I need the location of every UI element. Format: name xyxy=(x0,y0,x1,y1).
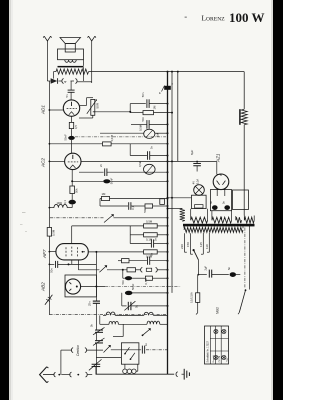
table marks xyxy=(214,329,226,359)
mech dash-dot mains xyxy=(244,228,246,289)
resistor 50k AC2 cathode xyxy=(70,186,79,194)
wire AF7 anode corner xyxy=(72,226,144,244)
svg-text:AF7: AF7 xyxy=(42,249,47,259)
switch arrow osc xyxy=(104,345,111,352)
svg-text:5n: 5n xyxy=(150,252,154,256)
resistor 0,5M row 226 xyxy=(144,219,169,228)
wire lamp row xyxy=(167,190,194,199)
wire AD1 plate right xyxy=(80,98,93,106)
resistor 1M row2 xyxy=(130,105,173,115)
wire choke down xyxy=(243,125,245,216)
label AB2 xyxy=(41,282,46,292)
svg-text:50n: 50n xyxy=(121,279,125,284)
wire terminal-left stem xyxy=(46,41,48,81)
wire AF7 bottom drops xyxy=(72,260,79,270)
svg-text:0,5M: 0,5M xyxy=(138,160,142,167)
wire row 218 to bus xyxy=(114,217,169,219)
wire mains drop left xyxy=(197,275,199,293)
wire AF7 left xyxy=(49,251,56,253)
antenna lead-in xyxy=(40,367,49,383)
row 269 jack xyxy=(78,267,168,272)
capacitor 50nF row 124 xyxy=(141,116,169,128)
wire ground bus bottom xyxy=(96,373,174,375)
potentiometer oval row 133 xyxy=(100,124,169,138)
label lamp xyxy=(191,179,199,185)
resistor 0,5M left rail xyxy=(47,228,55,237)
wire antenna row xyxy=(43,374,54,376)
svg-text:50nF: 50nF xyxy=(110,178,114,185)
resistor 0,1M row 144 xyxy=(103,134,169,145)
label Netz xyxy=(216,307,220,314)
mains switch xyxy=(238,289,246,314)
wire HT row 162 xyxy=(178,161,217,163)
coil loops AC2 xyxy=(54,202,67,208)
trimmer cap lower xyxy=(93,338,105,345)
svg-text:0,5M: 0,5M xyxy=(144,278,148,285)
tube AC2 xyxy=(65,153,81,169)
svg-text:125: 125 xyxy=(199,242,203,247)
svg-text:2µF: 2µF xyxy=(204,265,208,270)
svg-text:0,1: 0,1 xyxy=(131,205,135,209)
transformer secondary winding 4 xyxy=(244,216,254,224)
row 278 components xyxy=(121,276,169,284)
transformer primary winding xyxy=(184,226,243,232)
speaker LS xyxy=(60,38,81,53)
variable resistor 50R xyxy=(87,99,97,115)
wire coil rows link xyxy=(99,315,101,324)
svg-text:0,5: 0,5 xyxy=(74,125,78,129)
wire AC2 plate row xyxy=(81,160,178,162)
resistor stub row 261 xyxy=(118,259,147,263)
capacitor 5n row 155 xyxy=(148,145,169,159)
bus C xyxy=(177,71,179,162)
svg-text:0,5M: 0,5M xyxy=(52,229,56,236)
title Lorenz xyxy=(202,14,226,23)
voltage selector arm xyxy=(193,249,199,275)
svg-text:0,5M: 0,5M xyxy=(139,124,143,131)
mech dash-dot link AD1 xyxy=(75,136,166,138)
wire AD1 cathode drop xyxy=(71,116,73,122)
wire left rail mid xyxy=(49,109,51,265)
svg-text:220: 220 xyxy=(180,244,184,249)
wire fuse down xyxy=(196,302,198,314)
primary tap 125 xyxy=(199,233,203,254)
capacitor blob 5n b xyxy=(222,201,230,210)
output transformer secondary coil xyxy=(65,60,76,63)
transformer core xyxy=(183,224,255,227)
AZ1 leads down xyxy=(217,189,225,196)
switch arrow coils xyxy=(142,329,151,337)
right black scan band xyxy=(273,0,283,400)
wire AC2 cathode drop xyxy=(71,170,73,186)
tube AD1 xyxy=(63,100,79,116)
svg-text:5n: 5n xyxy=(150,145,154,149)
resistor 0,5M row 252 xyxy=(144,250,169,259)
faint margin marks xyxy=(20,212,27,232)
wire pickup row xyxy=(47,80,91,83)
svg-text:50R: 50R xyxy=(96,102,100,108)
mech dash-dot row 350 xyxy=(146,349,168,351)
wire 50R bottom xyxy=(79,112,95,118)
heater hum resistor xyxy=(167,208,185,222)
capacitor blob row 293 xyxy=(122,283,169,295)
table text xyxy=(207,340,229,362)
svg-text:5n: 5n xyxy=(154,237,158,241)
indicator arrow left rail xyxy=(45,295,53,305)
row 264 cathode xyxy=(49,261,96,273)
svg-text:0,1: 0,1 xyxy=(63,200,67,204)
capacitor 5n row 243 xyxy=(130,235,168,248)
transformer secondary winding 2 xyxy=(212,211,232,224)
svg-text:0,5M: 0,5M xyxy=(146,219,153,223)
svg-text:Geprüft: Geprüft xyxy=(212,355,215,363)
wire transformer right drop xyxy=(249,226,251,290)
filter choke xyxy=(240,109,247,125)
revision table xyxy=(205,326,229,364)
svg-text:110: 110 xyxy=(205,244,209,249)
lamp box xyxy=(192,195,207,208)
svg-text:150: 150 xyxy=(186,242,190,247)
capacitor 2n row 172 xyxy=(79,163,169,176)
scan shading left xyxy=(9,0,13,400)
contact pair 1 xyxy=(54,372,70,377)
wire AD1 grid left xyxy=(49,109,63,111)
resistor 0,1M row 234 xyxy=(130,226,168,242)
wire bottom frame xyxy=(96,357,121,359)
wire row 124 xyxy=(131,112,147,125)
scan shading right xyxy=(271,0,273,400)
tuning cap gang A xyxy=(89,359,102,374)
svg-text:8µF: 8µF xyxy=(190,150,194,155)
svg-text:5n: 5n xyxy=(227,267,231,270)
svg-text:25n: 25n xyxy=(88,301,92,306)
row 206 components xyxy=(100,199,169,213)
capacitor 50nF row1 xyxy=(141,92,168,108)
trimmer cap upper xyxy=(89,324,104,335)
wire row 144 left xyxy=(49,143,102,145)
svg-text:50k: 50k xyxy=(143,208,147,213)
wire terminal-right stem xyxy=(91,41,93,83)
tube AB2 box xyxy=(65,275,96,297)
tube AB2 xyxy=(65,279,80,294)
svg-text:0,1/0,15A: 0,1/0,15A xyxy=(190,292,193,303)
capacitor 5n mains a xyxy=(198,265,229,277)
band switch arrow row 218 xyxy=(104,215,114,223)
label AZ1 xyxy=(216,153,221,163)
wire 122 vertical xyxy=(122,269,124,278)
title 100 W xyxy=(229,10,265,25)
capacitor osc row xyxy=(142,343,147,354)
contact pair 3 xyxy=(71,348,103,353)
transformer secondary winding 3 xyxy=(236,216,242,223)
mech dash-dot row 314 xyxy=(49,314,166,316)
svg-text:50n: 50n xyxy=(49,268,53,273)
wire box-right drop xyxy=(82,60,84,81)
wire left rail lower xyxy=(48,264,50,314)
chassis ground xyxy=(176,369,189,380)
label AC2 xyxy=(41,158,46,168)
bus main A xyxy=(167,71,169,375)
label AD1 xyxy=(41,105,46,115)
primary tap 150 xyxy=(186,233,193,254)
wire left rail upper xyxy=(48,81,50,228)
wire osc row solid xyxy=(111,349,141,351)
AZ1 filter box xyxy=(210,190,231,211)
capacitor blob row 181 xyxy=(71,178,168,185)
wire AF7 plate row 252 xyxy=(88,251,143,253)
wire blob to coil xyxy=(67,204,72,207)
svg-text:50nF: 50nF xyxy=(131,283,135,290)
contact pair 2 xyxy=(70,372,92,377)
capacitor 5n row 261 xyxy=(148,252,169,264)
wire AB2 to right xyxy=(81,286,105,288)
capacitor grid AD1 xyxy=(65,81,74,100)
resistor AD1 cathode xyxy=(69,122,78,129)
label Drehko xyxy=(76,345,80,356)
coil pair row 316 xyxy=(103,312,168,315)
wave switch box xyxy=(121,343,138,364)
wire coil to left rail xyxy=(49,207,54,209)
svg-text:AZ1: AZ1 xyxy=(216,153,221,163)
antenna coil loops xyxy=(121,364,137,373)
svg-text:100 W: 100 W xyxy=(229,10,265,25)
output transformer core bar xyxy=(58,66,84,68)
jack contact arcs xyxy=(62,79,77,84)
capacitor blob mains b xyxy=(227,267,240,277)
svg-text:50n: 50n xyxy=(141,116,145,121)
heater winding box xyxy=(233,190,249,210)
trimmer row 306 xyxy=(122,293,169,311)
svg-text:2n: 2n xyxy=(99,163,103,167)
capacitor blob 5n a xyxy=(209,201,217,210)
svg-text:5n: 5n xyxy=(65,94,69,98)
resistor 1M row 198 xyxy=(100,192,169,201)
label 50R xyxy=(96,102,100,108)
resistor near bus 200 xyxy=(160,199,165,205)
wire coil left stub xyxy=(54,72,57,79)
svg-text:1000: 1000 xyxy=(57,202,63,205)
svg-text:0,3A: 0,3A xyxy=(196,179,200,185)
svg-text:AB2: AB2 xyxy=(41,282,46,292)
svg-text:Drehko: Drehko xyxy=(76,345,80,356)
pilot lamp xyxy=(194,185,205,196)
svg-text:50k: 50k xyxy=(75,188,79,193)
wire osc branch xyxy=(61,350,72,375)
coil row 324 xyxy=(100,321,168,324)
wire row 155 xyxy=(130,144,147,156)
wire 123 corner xyxy=(113,324,123,336)
svg-text:50nF: 50nF xyxy=(63,134,67,141)
primary tap 220 xyxy=(180,233,187,252)
svg-text:2-polig: 2-polig xyxy=(218,355,220,362)
wire primary to B+ line xyxy=(89,71,245,73)
capacitor blob 0,1uF xyxy=(63,200,76,205)
svg-text:50n: 50n xyxy=(141,92,145,97)
svg-text:4V: 4V xyxy=(191,181,195,184)
wire corner up xyxy=(130,104,146,112)
label AF7 xyxy=(42,249,47,259)
wire resistor to blob xyxy=(71,194,73,200)
mech dash-dot row 286 xyxy=(105,285,181,287)
output transformer primary winding xyxy=(56,69,89,74)
capacitor 8uF xyxy=(190,150,201,172)
svg-text:AD1: AD1 xyxy=(41,105,46,115)
wire to coupling blob xyxy=(71,129,73,136)
capacitor blob 50nF AD1 xyxy=(63,134,74,141)
svg-text:4: 4 xyxy=(64,81,68,83)
svg-text:1M: 1M xyxy=(152,105,156,110)
svg-text:0,1M: 0,1M xyxy=(110,134,114,141)
fuse 0,15A xyxy=(190,292,200,303)
svg-text:0,1M: 0,1M xyxy=(146,238,153,242)
primary tap 110 xyxy=(205,233,209,252)
wire selector to fuse xyxy=(198,274,200,276)
capacitor 25n on drop xyxy=(88,252,100,374)
svg-text:1M: 1M xyxy=(102,192,107,196)
wire AC2 grid left xyxy=(49,160,64,162)
svg-text:Netz: Netz xyxy=(216,307,220,314)
tube AF7 xyxy=(56,244,88,260)
terminal post right xyxy=(88,36,96,41)
wire B+ drop right xyxy=(243,72,245,110)
output transformer box xyxy=(58,49,84,60)
potentiometer oval row 169 xyxy=(138,160,155,174)
tube AZ1 xyxy=(213,162,229,190)
switch arrow row 269 xyxy=(99,266,106,273)
terminal post left xyxy=(43,36,51,41)
wire blob to AC2 xyxy=(71,140,73,153)
svg-text:AC2: AC2 xyxy=(41,158,46,168)
transformer secondary winding 1 xyxy=(191,209,208,223)
scan artifact dot xyxy=(185,17,187,18)
wire row plate AD1 xyxy=(95,111,131,113)
pickup jack symbol xyxy=(51,78,58,84)
left black scan band xyxy=(0,0,9,400)
mech dash-dot row 218 xyxy=(50,217,104,219)
fuse blob on bus xyxy=(159,83,174,96)
svg-text:Schaltbild Nr. 17327: Schaltbild Nr. 17327 xyxy=(207,340,210,362)
bus B xyxy=(171,71,173,293)
